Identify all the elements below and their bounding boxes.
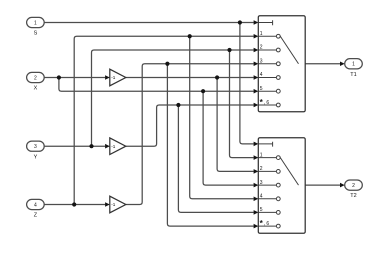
svg-text:, 6: , 6 (264, 221, 270, 227)
svg-text:3: 3 (260, 58, 263, 64)
svg-text:1: 1 (34, 20, 37, 26)
svg-text:, 6: , 6 (264, 100, 270, 106)
svg-text:3: 3 (260, 180, 263, 186)
svg-text:S: S (34, 31, 38, 37)
svg-text:-1: -1 (111, 202, 116, 207)
svg-text:2: 2 (260, 45, 263, 51)
svg-text:-1: -1 (111, 144, 116, 149)
svg-text:2: 2 (352, 183, 355, 189)
svg-text:4: 4 (260, 194, 263, 200)
svg-text:-1: -1 (111, 75, 116, 80)
svg-text:5: 5 (260, 207, 263, 213)
svg-text:4: 4 (260, 72, 263, 78)
svg-text:1: 1 (260, 152, 263, 158)
svg-text:Y: Y (34, 154, 38, 160)
svg-text:1: 1 (352, 62, 355, 68)
svg-text:2: 2 (260, 166, 263, 172)
svg-text:X: X (34, 86, 38, 92)
svg-text:4: 4 (34, 202, 37, 208)
svg-text:1: 1 (260, 31, 263, 37)
svg-text:T1: T1 (350, 72, 356, 78)
svg-text:2: 2 (34, 75, 37, 81)
svg-text:3: 3 (34, 144, 37, 150)
svg-text:5: 5 (260, 86, 263, 92)
svg-text:T2: T2 (350, 193, 356, 199)
